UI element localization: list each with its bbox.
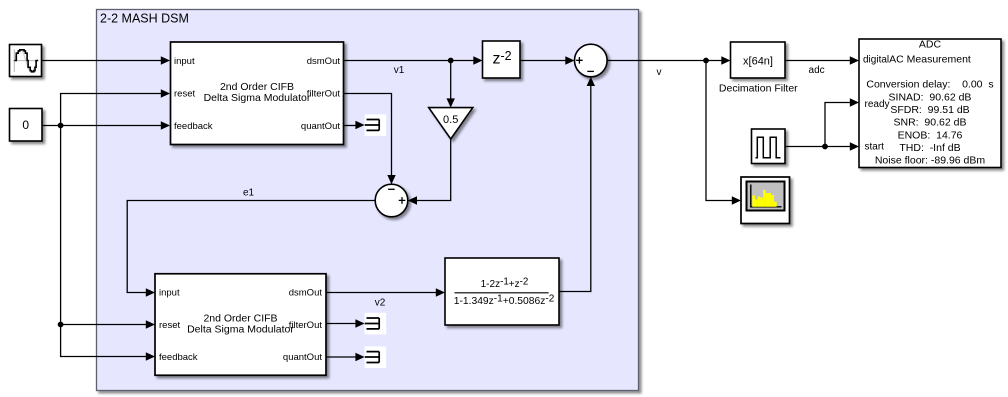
svg-text:dsmOut: dsmOut [307, 56, 341, 67]
wire: DSM2 filterOut to terminator T2 [326, 319, 365, 327]
svg-text:ENOB: 14.76: ENOB: 14.76 [898, 129, 963, 141]
svg-text:quantOut: quantOut [283, 352, 322, 363]
terminator T2 (filterOut of DSM2) [365, 313, 387, 335]
svg-text:SNR: 90.62 dB: SNR: 90.62 dB [894, 117, 967, 129]
svg-text:THD: -Inf dB: THD: -Inf dB [899, 142, 960, 154]
wire: DSM1 quantOut to terminator T1 [344, 121, 365, 129]
pulse generator [752, 129, 786, 164]
svg-text:Delta Sigma Modulator: Delta Sigma Modulator [187, 324, 294, 336]
svg-text:0.5: 0.5 [443, 114, 458, 126]
DSM block 1: 2nd Order CIFB Delta Sigma Modulator [171, 42, 344, 145]
svg-text:x[64n]: x[64n] [743, 56, 773, 68]
terminator T1 (quantOut of DSM1) [365, 114, 387, 136]
svg-text:Conversion delay: 0.00 s: Conversion delay: 0.00 s [866, 79, 993, 91]
svg-text:v1: v1 [394, 65, 405, 76]
spectrum analyzer scope [741, 177, 790, 224]
svg-text:filterOut: filterOut [307, 89, 341, 100]
wire: junction down into gain 0.5 [447, 61, 455, 108]
svg-text:SINAD: 90.62 dB: SINAD: 90.62 dB [889, 91, 972, 103]
wire: junction down to spectrum analyzer [706, 61, 741, 205]
wire: sine to DSM1 input [42, 56, 171, 64]
wire v: upper sum output to decimation filter with junction [607, 56, 730, 78]
svg-text:reset: reset [174, 89, 195, 100]
wire e1: lower sum output to DSM2 input [127, 188, 375, 297]
delay block z^-2 [483, 41, 521, 78]
svg-text:adc: adc [809, 65, 825, 76]
ADC AC Measurement block [859, 39, 1001, 168]
sine wave source [10, 45, 42, 77]
wire: z^-2 output into upper sum [520, 56, 575, 64]
wire v1: DSM1 dsmOut to z^-2 with junction [344, 56, 483, 76]
svg-text:Decimation Filter: Decimation Filter [719, 83, 798, 95]
svg-text:dsmOut: dsmOut [289, 288, 323, 299]
wire: junction up to reset DSM1 [61, 89, 170, 125]
svg-text:Noise floor: -89.96 dBm: Noise floor: -89.96 dBm [875, 154, 986, 166]
decimation filter block x[64n] [719, 42, 798, 95]
svg-text:quantOut: quantOut [301, 121, 340, 132]
svg-text:0: 0 [22, 118, 29, 132]
wire v2: DSM2 dsmOut to transfer fcn [326, 288, 445, 308]
svg-text:e1: e1 [243, 188, 255, 199]
wire: junction down to DSM2 reset and feedback [58, 126, 155, 361]
wire: DSM1 filterOut down into lower sum top [344, 94, 396, 185]
svg-text:v: v [657, 67, 662, 78]
svg-text:ADC: ADC [919, 39, 942, 51]
sum junction lower [375, 184, 408, 217]
svg-text:reset: reset [159, 320, 180, 331]
wire adc: decimation filter to ADC digital [785, 56, 859, 76]
svg-text:start: start [865, 142, 885, 153]
svg-text:feedback: feedback [159, 352, 198, 363]
svg-text:SFDR: 99.51 dB: SFDR: 99.51 dB [890, 104, 969, 116]
svg-text:input: input [174, 56, 195, 67]
svg-text:ready: ready [865, 99, 890, 110]
wire: DSM2 quantOut to terminator T3 [326, 353, 365, 361]
terminator T3 (quantOut of DSM2) [365, 346, 387, 368]
gain 0.5 [429, 108, 473, 139]
svg-text:v2: v2 [375, 298, 386, 309]
wire: constant 0 to feedback with junction [42, 121, 170, 129]
svg-text:Delta Sigma Modulator: Delta Sigma Modulator [204, 92, 311, 104]
wire: gain output down and left into lower sum [408, 139, 451, 205]
discrete transfer function block [445, 258, 559, 325]
svg-text:AC Measurement: AC Measurement [889, 54, 971, 66]
subsystem area 2-2 MASH DSM [97, 10, 639, 391]
svg-text:1-1.349z-1+0.5086z-2: 1-1.349z-1+0.5086z-2 [454, 294, 555, 308]
sum junction upper [575, 44, 608, 77]
wire: pulse generator to ADC start and ready [785, 98, 859, 150]
svg-text:digital: digital [863, 55, 889, 66]
svg-text:input: input [159, 288, 180, 299]
svg-text:feedback: feedback [174, 121, 213, 132]
svg-text:2-2 MASH DSM: 2-2 MASH DSM [100, 12, 189, 26]
constant 0 [10, 109, 43, 142]
wire: transfer fcn output up into upper sum bottom [559, 77, 595, 292]
DSM block 2: 2nd Order CIFB Delta Sigma Modulator [155, 274, 326, 376]
